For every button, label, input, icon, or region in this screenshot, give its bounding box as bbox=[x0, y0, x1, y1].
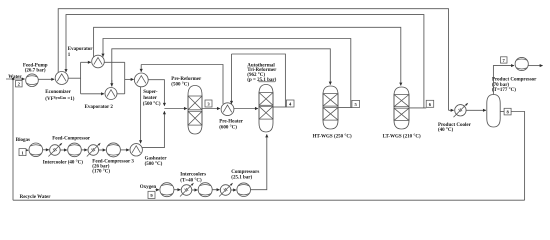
svg-text:(25.1 bar): (25.1 bar) bbox=[231, 175, 252, 180]
wire economizer outlet to split bbox=[68, 77, 81, 79]
reactor Autothermal Tri-Reformer vessel bbox=[259, 85, 273, 133]
wire compressor2 to intercooler2 bbox=[82, 149, 88, 151]
svg-text:Feed-Compressor: Feed-Compressor bbox=[52, 136, 91, 141]
wire intercooler1 to compressor2 bbox=[60, 149, 67, 151]
wire product cooler to flash bbox=[466, 109, 486, 111]
wire split to evaporator 1 bbox=[81, 61, 91, 63]
svg-text:(26.7 bar): (26.7 bar) bbox=[25, 69, 46, 74]
compressor o2 C3 bbox=[237, 183, 251, 197]
svg-text:Water: Water bbox=[8, 75, 22, 80]
wire evaporator 2 heat inlet arrow bbox=[111, 80, 113, 86]
compressor o2 C1 bbox=[160, 183, 174, 197]
compressor biogas C3 Feed-Compressor 3 bbox=[106, 143, 120, 157]
reactor HT-WGS vessel bbox=[323, 86, 338, 129]
wire flash right to box 8 bbox=[500, 111, 504, 113]
reactor Pre-Reformer vessel bbox=[188, 86, 202, 135]
wire top line 5 evaporator 2 to HT-WGS bbox=[112, 49, 330, 87]
heat-exchanger Evaporator 2 bbox=[105, 88, 117, 100]
svg-text:(70 bar): (70 bar) bbox=[492, 83, 509, 88]
svg-text:Pre-Heater: Pre-Heater bbox=[219, 120, 244, 125]
wire flash top to product compressor bbox=[493, 66, 514, 95]
node water-recycle junction bbox=[12, 78, 14, 80]
svg-text:Biogas: Biogas bbox=[16, 138, 30, 143]
heat-exchanger Economizer bbox=[55, 72, 68, 85]
node stream box 8 bbox=[504, 108, 511, 115]
svg-text:Recycle Water: Recycle Water bbox=[20, 195, 52, 200]
svg-text:(600 °C): (600 °C) bbox=[219, 125, 237, 130]
svg-text:Evaporator 2: Evaporator 2 bbox=[85, 105, 114, 110]
node stream box 7 bbox=[501, 57, 508, 63]
wire HT-WGS outlet to box 5 bbox=[338, 107, 352, 109]
wire water feed bbox=[6, 78, 25, 80]
wire pre-heater outlet to ATR bbox=[234, 108, 258, 110]
node stream box 9 oxygen bbox=[148, 191, 155, 198]
svg-text:HT-WGS (250 °C): HT-WGS (250 °C) bbox=[313, 135, 352, 140]
wire recycle water riser bbox=[12, 79, 14, 200]
wire top line 2 LT-WGS out to economizer bbox=[66, 15, 424, 108]
heat-exchanger Superheater bbox=[134, 73, 148, 87]
svg-text:Super-: Super- bbox=[143, 90, 158, 95]
reactor LT-WGS vessel bbox=[394, 87, 409, 129]
compressor Product Compressor bbox=[515, 57, 528, 70]
svg-text:(500 °C): (500 °C) bbox=[145, 162, 163, 167]
wire oxygen inlet bbox=[155, 189, 159, 191]
cooler o2 intercooler 2 bbox=[220, 185, 231, 196]
wire o2 compressor2 to intercooler2 bbox=[212, 189, 219, 191]
node stream box 1 bbox=[19, 149, 26, 156]
wire recycle water down from flash bbox=[511, 112, 524, 201]
wire syngas down into superheater bbox=[140, 65, 142, 72]
svg-text:LT-WGS (210 °C): LT-WGS (210 °C) bbox=[383, 134, 421, 139]
wire oxygen to ATR bottom bbox=[251, 134, 267, 189]
wire superheater to gasheater heat line bbox=[140, 87, 142, 144]
heat-exchanger Evaporator 1 bbox=[92, 55, 105, 68]
cooler o2 intercooler 1 bbox=[181, 185, 192, 196]
wire top line 3 evaporator 1 to LT-WGS bbox=[94, 27, 401, 85]
svg-text:(170 °C): (170 °C) bbox=[92, 170, 110, 175]
svg-text:(500 °C): (500 °C) bbox=[143, 102, 161, 107]
wire pre-reformer outlet to pre-heater bbox=[202, 108, 220, 110]
node stream box 3 bbox=[205, 100, 212, 107]
wire split to evaporator 2 bbox=[81, 93, 104, 95]
svg-text:Evaporator: Evaporator bbox=[68, 47, 94, 52]
wire recycle water bottom run bbox=[13, 199, 525, 201]
heat-exchanger Pre-Heater bbox=[221, 103, 234, 116]
node stream box 5 bbox=[352, 100, 360, 107]
wire ATR outlet to box 4 bbox=[273, 106, 286, 108]
wire pump to economizer bbox=[38, 78, 54, 80]
svg-text:Oxygen: Oxygen bbox=[140, 185, 157, 190]
wire syngas down into pre-heater bbox=[231, 54, 233, 104]
svg-text:(40 °C): (40 °C) bbox=[438, 128, 454, 133]
node stream box 6 bbox=[426, 100, 434, 107]
vessel flash drum bbox=[487, 95, 500, 128]
wire ATR syngas riser bbox=[232, 54, 286, 107]
svg-text:(500 °C): (500 °C) bbox=[171, 82, 189, 87]
wire superheater outlet to mix point bbox=[148, 80, 164, 106]
wire LT-WGS outlet to box 6 bbox=[409, 107, 426, 109]
wire top line 4 box 5 to evaporator 1 bbox=[103, 39, 351, 108]
wire gasheater outlet riser to mix point bbox=[142, 111, 165, 147]
wire biogas inlet bbox=[26, 149, 28, 151]
wire mixed feed to pre-reformer bbox=[164, 108, 187, 110]
wire evaporator collect vertical bbox=[124, 62, 126, 94]
wire o2 compressor1 to intercooler1 bbox=[174, 189, 180, 191]
wire intercooler2 to compressor3 bbox=[99, 149, 106, 151]
svg-text:Product Compressor: Product Compressor bbox=[492, 78, 537, 83]
compressor biogas C1 bbox=[29, 143, 43, 157]
node stream box 2 bbox=[16, 81, 23, 87]
wire o2 intercooler1 to compressor2 bbox=[192, 189, 198, 191]
node stream box 4 bbox=[286, 100, 294, 107]
wire o2 intercooler2 to compressor3 bbox=[231, 189, 236, 191]
wire steam to superheater bbox=[125, 78, 134, 80]
svg-text:Gasheater: Gasheater bbox=[145, 157, 168, 162]
svg-text:(T=40 °C): (T=40 °C) bbox=[180, 179, 202, 184]
svg-text:Intercooler (40 °C): Intercooler (40 °C) bbox=[43, 160, 83, 165]
svg-text:Intercoolers: Intercoolers bbox=[180, 173, 206, 178]
cooler biogas intercooler 2 bbox=[88, 145, 99, 156]
wire product cooler inlet arrow bbox=[449, 109, 454, 111]
wire top line 1 economizer to product cooler bbox=[58, 9, 448, 111]
cooler biogas intercooler 1 bbox=[50, 145, 61, 156]
wire evaporator 1 outlet bbox=[104, 61, 125, 63]
wire pre-heater to superheater heat line bbox=[141, 65, 223, 104]
compressor o2 C2 bbox=[198, 183, 212, 197]
wire evaporator 2 outlet bbox=[117, 93, 125, 95]
svg-text:Economizer: Economizer bbox=[45, 90, 71, 95]
wire biogas compressor1 to intercooler1 bbox=[43, 149, 49, 151]
svg-text:(T=177 °C): (T=177 °C) bbox=[492, 88, 516, 93]
wire evaporator split vertical bbox=[80, 62, 82, 94]
compressor biogas C2 bbox=[68, 143, 82, 157]
heat-exchanger Gasheater bbox=[130, 144, 142, 156]
wire product out bbox=[528, 65, 543, 67]
wire compressor3 to gasheater bbox=[121, 149, 130, 151]
svg-text:heater: heater bbox=[143, 96, 157, 101]
cooler Product Cooler bbox=[455, 105, 466, 116]
pump P1 Feed-Pump bbox=[26, 74, 39, 87]
svg-text:Compressors: Compressors bbox=[231, 170, 259, 175]
svg-text:Product Cooler: Product Cooler bbox=[438, 123, 472, 128]
